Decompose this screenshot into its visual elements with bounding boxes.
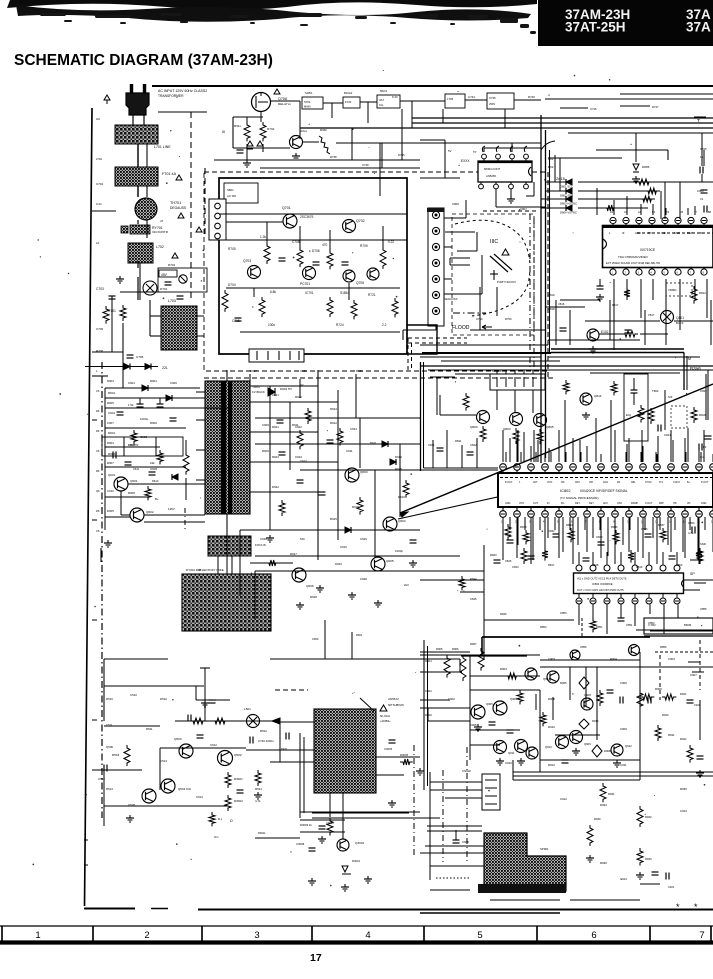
left wires mesh [122,360,124,388]
resistor R715 vertical [222,290,228,312]
model header black bar [538,0,713,46]
mid grounds [319,585,321,588]
svg-text:S1854: S1854 [340,291,349,295]
CN703 top black bar [427,208,444,212]
degauss coil connector hatched box [161,306,197,350]
wire focus to Q606 [250,562,293,564]
svg-text:D2xx: D2xx [300,129,307,133]
svg-text:HD: HD [673,502,677,505]
svg-text:DY601 DEFLECTION YOKE: DY601 DEFLECTION YOKE [186,568,224,572]
svg-text:SP: SP [690,572,695,576]
bus line H6 right [548,157,622,159]
svg-text:Q703: Q703 [243,259,251,263]
cap C501 [197,734,204,736]
svg-text:R841: R841 [455,439,462,443]
resistor R816 horizontal [622,331,638,337]
svg-text:R905: R905 [436,647,443,651]
audio diamond D906b [579,719,589,729]
svg-text:R608: R608 [128,491,135,495]
resistor R731 vertical [244,122,250,141]
wire y345 horizontal [420,344,548,346]
svg-text:01x: 01x [379,103,384,107]
svg-text:Q702: Q702 [356,219,365,223]
svg-text:R854: R854 [540,625,547,629]
svg-text:R921: R921 [680,692,687,696]
svg-text:OSC: OSC [617,502,622,505]
svg-text:MM-9: MM-9 [380,89,387,93]
svg-text:VA7: VA7 [379,98,384,102]
dashes right edge [690,559,702,561]
speaker hatched blob L-shape [484,833,566,891]
vertical x160 [159,748,161,790]
verticals dropping to rail y659 [324,620,326,659]
schematic outer top border [152,85,713,87]
diode on y366 wire B [145,364,151,370]
transformer driver transistor Q702 [343,220,356,233]
thick rail y353 left part [422,352,551,354]
svg-text:37A: 37A [686,20,711,35]
wire fuse to thermistor [137,186,139,197]
left mid extra wires [105,516,130,518]
long wire y667 [540,666,713,668]
main vertical bus line B [545,130,547,458]
lower-right wire y652 [420,651,470,653]
IIIC extra verticals [479,287,481,330]
transistor Q505 [142,789,156,803]
svg-text:C510: C510 [130,693,137,697]
vertical wire x430 lower [429,772,431,880]
svg-text:APC: APC [575,481,580,484]
CRT dashed enclosure [452,214,534,335]
short diagonal lead line [398,492,520,519]
svg-text:R513: R513 [106,787,113,791]
svg-text:E102: E102 [601,330,609,334]
svg-text:1.2k: 1.2k [260,235,266,239]
bottom mid extras [300,819,345,821]
svg-text:22L: 22L [162,366,168,370]
scan ink smudge band [7,0,537,10]
connector CN801 above IC802 [490,374,545,390]
left cap C503 [103,765,105,772]
svg-text:R932: R932 [645,815,652,819]
top band extra wires 1 [214,159,420,161]
svg-text:R628: R628 [310,595,317,599]
svg-text:C740 2200u: C740 2200u [258,739,274,743]
svg-text:1000u: 1000u [140,417,149,421]
resistor R712 vertical [297,247,303,267]
svg-text:R901: R901 [425,659,432,663]
svg-text:R610: R610 [152,479,159,483]
svg-text:P-OUT: P-OUT [701,481,709,484]
wires into degauss box [150,315,161,317]
wire under Q802 [599,333,622,335]
wire IC803 left [420,139,445,141]
left wire into Q803 [440,414,476,416]
lower-right extra resistors [505,673,519,679]
AC plug label box [155,86,251,101]
svg-text:RELAYxx: RELAYxx [278,102,291,106]
svg-text:R511: R511 [146,727,153,731]
wires top circuit [260,112,262,122]
svg-text:Q708: Q708 [278,97,287,101]
svg-text:L705: L705 [447,97,454,101]
mid-right extra caps [560,327,567,329]
svg-text:MITSUBISHI: MITSUBISHI [388,703,404,707]
svg-text:2SC3679: 2SC3679 [300,215,314,219]
mid resistors [297,430,303,449]
sound IC bottom pin circles [578,594,580,598]
vert out transistor Q604 [383,517,397,531]
svg-text:R843: R843 [490,553,497,557]
sound IC notch right [682,580,684,587]
svg-text:*: * [676,902,680,912]
AGC resistor stack zig2 [225,795,231,811]
resistor R501 horizontal on rail [190,718,206,724]
svg-text:4.7k: 4.7k [255,799,261,803]
svg-text:6.8k: 6.8k [270,290,276,294]
svg-text:Q603: Q603 [360,470,368,474]
svg-text:F702: F702 [345,100,352,104]
svg-text:C513: C513 [160,759,167,763]
svg-text:S801: S801 [227,188,234,192]
resistor R824 vertical [563,380,569,394]
T601 bottom lead [226,514,228,536]
svg-text:R609: R609 [262,449,269,453]
warning mark top [274,89,280,94]
components under IC802 row2 [528,555,535,557]
svg-text:D622: D622 [272,485,279,489]
IC801 body [603,226,713,268]
svg-text:250V: 250V [489,102,495,106]
left block vertical below rail [103,659,105,721]
svg-text:R812: R812 [699,291,706,295]
svg-text:R931: R931 [608,792,615,796]
schematic bottom border second line [420,912,560,914]
arrowhead into tuner [272,718,280,724]
IC803 wire pin2 L [495,189,497,207]
fusible lamp symbol left of box [179,275,187,283]
wire zig to bus [336,142,541,144]
third bus vertical [549,150,551,352]
power column small caps row [165,281,172,283]
svg-text:SP901: SP901 [540,847,549,851]
IC801 top pin stems [612,224,614,227]
svg-text:D704: D704 [228,283,236,287]
wires below sound IC [578,605,580,626]
emitter resistor RQ4 [513,428,519,444]
svg-text:DEGAUSS: DEGAUSS [444,297,458,301]
capacitor C713 [342,261,349,263]
T601 core bar 2 [228,381,232,514]
svg-text:RF: RF [617,481,621,484]
vert drive transistor Q605 [371,557,385,571]
mid horizontal wire row 1 [255,417,420,419]
mid vertical wire 1 [317,370,319,560]
svg-text:III: III [222,130,225,134]
left border tick marks bottom [84,839,88,841]
left entry wire [92,210,116,212]
IC802 bottom pin circles [502,507,504,511]
svg-text:D603: D603 [107,379,114,383]
cap C821 [657,425,659,432]
CN801 extra stubs [496,370,498,374]
svg-text:R8x8: R8x8 [699,413,706,417]
tuner block hatched [314,709,376,793]
left circuit extra rows [105,407,230,409]
capacitor C731 [237,149,244,151]
svg-text:H-V: H-V [659,481,664,484]
svg-text:EIQ: EIQ [626,413,632,417]
extra cap right of IC801 [703,206,705,213]
capacitor C712 [313,261,320,263]
left short stub [100,548,102,562]
diode D732b [257,141,263,146]
svg-text:TDA CHROMA/VIDEO: TDA CHROMA/VIDEO [618,255,649,259]
vertical bus curve top [541,141,555,150]
svg-text:C816: C816 [558,302,565,306]
svg-text:C817: C817 [648,313,655,317]
bus line H2 [412,122,713,124]
svg-text:C806: C806 [452,202,459,206]
svg-text:OUT x VCC CAP1 AF2 NF3 PW4 OUT: OUT x VCC CAP1 AF2 NF3 PW4 OUT5 [577,588,624,592]
ground lower-left 1 [129,815,131,818]
vertical wire pair x420 [420,362,422,471]
svg-text:4.7u: 4.7u [688,531,694,535]
svg-text:TP31: TP31 [281,747,288,751]
svg-text:R625: R625 [330,517,337,521]
svg-text:C914: C914 [620,877,627,881]
svg-text:Q604: Q604 [398,519,406,523]
pullup resistor RZ1 [636,179,652,185]
svg-text:X-RAY: X-RAY [673,481,681,484]
diode on y366 wire A [124,364,130,370]
pullup vertical joins [664,182,666,219]
svg-text:(TV SIGNAL PROCESSOR): (TV SIGNAL PROCESSOR) [560,496,599,500]
mid extra verticals [359,418,361,468]
CN701 pin circles [215,203,221,209]
mid horizontal wire row 5 [255,555,460,557]
yoke lower transistor Q606 [292,568,306,582]
audio diamond D907 [592,745,602,757]
svg-text:IC804 IX0308CE: IC804 IX0308CE [592,582,613,586]
svg-text:C832: C832 [548,529,555,533]
left mid tick marks on border [92,419,97,421]
lower rail segment A [104,658,168,660]
diagonal arrowhead [400,512,408,517]
regulator transistor Q705 [343,270,355,282]
svg-text:Q504 KIA: Q504 KIA [178,787,191,791]
svg-text:C1: C1 [700,197,704,201]
wire to flyback [144,514,205,516]
wire rows tuner bottom [300,811,420,813]
HV diode D602 [268,388,275,396]
left small box dividers [123,437,125,456]
svg-text:C903: C903 [548,657,555,661]
regulator transistor Q706 [367,268,379,280]
IC802 inner dashed line [500,477,713,479]
svg-text:C921: C921 [668,885,675,889]
capacitor C714 [235,317,242,319]
svg-text:D605: D605 [107,509,114,513]
svg-text:SYNC: SYNC [645,481,652,484]
CN703 pin dots [435,214,437,216]
svg-text:D701: D701 [160,287,168,291]
long bus line below block 3 [428,369,713,371]
svg-text:AC INPUT 120V 60Hz CLASS2: AC INPUT 120V 60Hz CLASS2 [158,89,207,93]
flyback transformer T601 hatched body [205,381,250,514]
svg-text:C905: C905 [470,723,477,727]
svg-text:C606: C606 [170,381,177,385]
right lower dash vertical 2 [699,640,701,690]
svg-text:D602 HV: D602 HV [280,387,292,391]
svg-text:C609: C609 [262,423,269,427]
svg-text:2d15: 2d15 [556,176,566,181]
wires CN703 step brackets [445,231,475,233]
svg-text:R607: R607 [107,461,114,465]
svg-text:AN5265: AN5265 [486,174,496,178]
IC801 top pin circles [610,217,616,223]
IC803 thick top edge [478,161,532,163]
left mid extra components [125,461,132,463]
wire y780 [513,779,640,781]
mid extra grounds [269,535,271,538]
lower-right extra caps [607,689,614,691]
right lower grounds [589,855,591,858]
small parts right column [687,699,694,701]
svg-text:GND: GND [505,502,511,505]
wire CN703 pin1 right [444,217,466,219]
IC801 block right edge down [683,353,685,391]
svg-text:C843: C843 [512,565,519,569]
svg-text:FBP: FBP [659,502,664,505]
bus line H4 [568,132,713,134]
lower-right extra verticals [469,655,471,760]
ground Q802 [592,346,594,349]
svg-text:PC701: PC701 [300,282,310,286]
power supply inner solid box [219,178,407,354]
corner box lower right [644,618,713,634]
IC801 notch left [603,239,607,249]
svg-text:C601: C601 [108,411,115,415]
svg-text:R833: R833 [520,525,527,529]
svg-text:C708: C708 [292,240,300,244]
svg-text:2.5A: 2.5A [96,157,102,161]
svg-text:R920: R920 [662,713,669,717]
svg-text:D905: D905 [560,681,567,685]
mid caps [279,451,286,453]
svg-text:R705: R705 [228,247,236,251]
AF transistor Q501 circle [247,715,260,728]
svg-text:IX0719CE: IX0719CE [640,248,656,252]
left circuit extra caps [117,411,124,413]
component box row C745 [487,93,514,109]
pincushion transistor Q603 [345,468,359,482]
svg-text:C911: C911 [620,763,627,767]
cap C3008 [309,847,316,849]
rail y361 [441,360,560,362]
wire row y148 [505,147,541,149]
svg-text:4: 4 [365,930,370,941]
mid horizontal wire row 4 [240,529,420,531]
svg-text:C622: C622 [295,425,302,429]
svg-text:R3005: R3005 [400,753,409,757]
top band verticals [351,128,353,160]
short rail stub left [92,375,108,377]
IC803 notch [529,167,532,176]
wire Q601-Q602 [120,491,122,515]
svg-text:22k: 22k [150,461,155,465]
small diode D805 vertical [635,133,637,162]
svg-text:VCO: VCO [547,481,552,484]
svg-text:0.01: 0.01 [96,202,102,206]
wire row y143 [490,142,541,144]
lower rail segment B [270,658,460,660]
svg-text:X D52: X D52 [648,623,656,627]
wire y340 partial [548,339,640,341]
svg-text:C604: C604 [128,381,135,385]
wire CN703 pin7 dashdot [453,312,486,314]
svg-text:SCHEMATIC DIAGRAM (37AM-23H): SCHEMATIC DIAGRAM (37AM-23H) [14,52,273,69]
svg-text:31CX/A5TR: 31CX/A5TR [152,230,168,234]
warning mark right of F701 [176,175,182,180]
dotted wire into blob [436,877,470,879]
svg-text:C605: C605 [150,467,157,471]
svg-text:Q506: Q506 [106,745,113,749]
audio transistor QA4 [547,671,559,683]
svg-text:R909: R909 [655,687,662,691]
left area caps [137,403,144,405]
svg-text:R732: R732 [267,127,275,131]
svg-text:R702: R702 [168,263,175,267]
svg-text:D908: D908 [604,749,611,753]
right lower dash vertical 1 [659,655,661,700]
capacitor C701 block [159,270,177,277]
resistor RA1 vertical [444,655,450,678]
IC803 bottom pins [480,182,482,184]
bottom mid ground [321,836,323,839]
bus line H5 right [596,149,668,151]
tuner right leads [376,756,420,758]
svg-text:C744: C744 [468,95,475,99]
svg-text:C611: C611 [133,467,140,471]
audio transistor QA11 [611,744,623,756]
wires below IC802 [502,517,504,560]
speaker wire double y776 [513,775,713,777]
IC801 inner dashed line [637,232,713,234]
svg-text:C706: C706 [96,327,103,331]
svg-text:R908: R908 [548,697,555,701]
warning triangle IIIC [502,249,509,255]
wires into tuner left [280,721,314,723]
svg-text:Q805: Q805 [546,425,554,429]
svg-text:D805: D805 [642,165,650,169]
svg-text:RAMP: RAMP [631,502,638,505]
vertical wire to IC pin x597 [596,188,598,215]
right lower caps [652,871,659,873]
dash vertical lower x467 [466,747,468,862]
svg-text:R721: R721 [368,293,376,297]
svg-text:EXT VIDEO SOUND xOUT RGB: EXT VIDEO SOUND xOUT RGB DEF ABL HD [606,261,660,265]
svg-text:Q705: Q705 [356,281,364,285]
svg-text:C823: C823 [700,389,707,393]
wire y357 left part [420,356,541,358]
dash-dot vertical right of tuner [413,745,415,858]
svg-text:Q912: Q912 [625,744,632,748]
wire top rail lower-left [175,720,280,722]
svg-text:R631: R631 [356,369,363,373]
svg-text:C624: C624 [350,427,357,431]
svg-text:9V: 9V [300,383,304,387]
